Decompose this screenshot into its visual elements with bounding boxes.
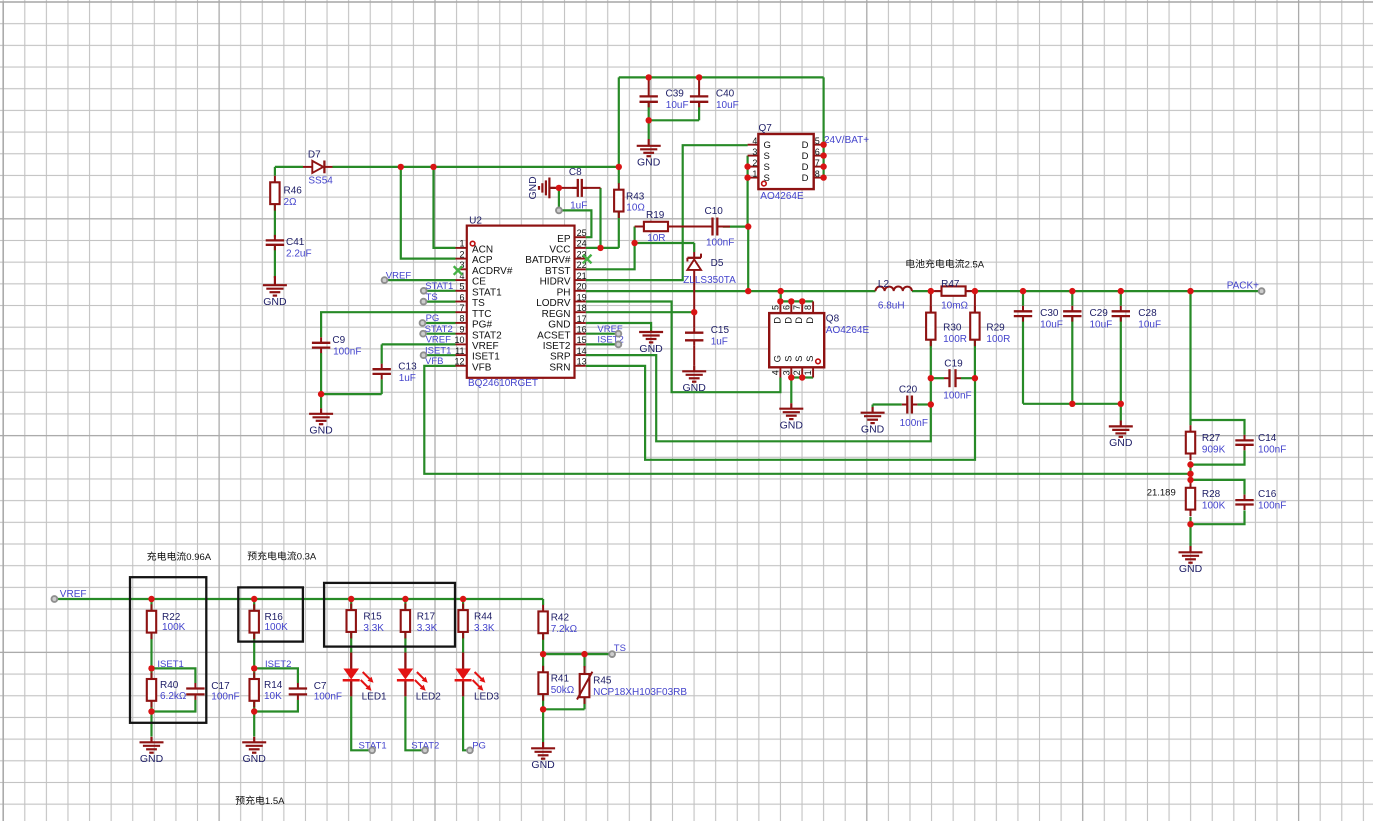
svg-text:14: 14 xyxy=(577,346,587,356)
svg-text:10uF: 10uF xyxy=(1040,320,1063,331)
svg-text:LED1: LED1 xyxy=(362,692,387,703)
wire VCC node: R43 bottom to U2 pin 24 and C8 xyxy=(586,167,619,248)
wire ACN branch to U2 pin 1 xyxy=(434,167,456,248)
resistor R44 xyxy=(458,604,467,639)
svg-text:0.96A: 0.96A xyxy=(186,552,211,563)
wire REGN: U2 pin 18 to D5 anode and C15 xyxy=(586,311,694,313)
svg-text:D: D xyxy=(772,317,783,324)
svg-text:10uF: 10uF xyxy=(1138,320,1161,331)
svg-text:D7: D7 xyxy=(308,150,321,161)
svg-text:PG#: PG# xyxy=(472,320,492,331)
wire TTC pin 7 to C9 xyxy=(321,312,455,337)
svg-text:R43: R43 xyxy=(626,191,645,202)
svg-text:5: 5 xyxy=(815,136,820,146)
capacitor C28 xyxy=(1112,306,1130,322)
svg-text:C29: C29 xyxy=(1090,308,1109,319)
svg-text:7: 7 xyxy=(815,158,820,168)
wire ACP branch to U2 pin 2 xyxy=(401,167,456,259)
wire C9/C13 bottoms to GND xyxy=(321,353,382,408)
resistor R46 xyxy=(270,176,279,211)
wire BTST net: U2 pin 22 to R19 and D5 cathode xyxy=(586,227,694,270)
svg-text:BATDRV#: BATDRV# xyxy=(525,255,571,266)
wire C15 bottom to GND xyxy=(693,346,695,366)
svg-text:BQ24610RGET: BQ24610RGET xyxy=(468,378,538,389)
svg-text:GND: GND xyxy=(263,296,287,308)
net label PACK+ xyxy=(1227,281,1259,292)
capacitor C8 xyxy=(549,179,600,197)
svg-text:LODRV: LODRV xyxy=(536,298,571,309)
svg-text:D: D xyxy=(802,173,809,184)
svg-text:GND: GND xyxy=(531,759,555,771)
resistor R15 xyxy=(347,604,356,639)
svg-text:1uF: 1uF xyxy=(399,373,416,384)
svg-text:24: 24 xyxy=(577,239,587,249)
svg-text:ACDRV#: ACDRV# xyxy=(472,266,513,277)
svg-text:AO4264E: AO4264E xyxy=(826,325,870,336)
svg-text:GND: GND xyxy=(309,425,333,437)
svg-text:LED3: LED3 xyxy=(474,692,499,703)
svg-text:R41: R41 xyxy=(551,674,570,685)
svg-text:SS54: SS54 xyxy=(308,176,333,187)
svg-text:12: 12 xyxy=(454,357,464,367)
svg-text:SRP: SRP xyxy=(550,352,571,363)
svg-text:ISET1: ISET1 xyxy=(472,352,500,363)
svg-text:1.5A: 1.5A xyxy=(265,796,285,807)
svg-text:REGN: REGN xyxy=(542,309,571,320)
wire output capacitor bottoms rail xyxy=(1023,316,1121,420)
pin names of U2 right xyxy=(525,234,571,374)
pin numbers of Q8 top xyxy=(770,305,813,310)
net label STAT2 at U2 pin 9 xyxy=(425,324,453,335)
net label TS at R42 bottom xyxy=(614,643,626,654)
svg-text:13: 13 xyxy=(577,357,587,367)
svg-text:GND: GND xyxy=(140,753,164,765)
wire VREF rail bottom section xyxy=(54,599,543,605)
svg-text:R29: R29 xyxy=(986,323,1005,334)
svg-text:2.2uF: 2.2uF xyxy=(286,249,312,260)
resistor R29 xyxy=(970,306,979,346)
svg-text:ZLLS350TA: ZLLS350TA xyxy=(683,275,736,286)
capacitor C17 xyxy=(186,683,204,700)
svg-text:VFB: VFB xyxy=(472,362,492,373)
svg-text:GND: GND xyxy=(243,753,267,765)
svg-text:GND: GND xyxy=(639,343,663,355)
ground below C9 xyxy=(309,408,333,436)
svg-text:3: 3 xyxy=(752,147,757,157)
net label TS at U2 pin 6 xyxy=(426,292,438,303)
net label VREF at rail start xyxy=(60,589,87,600)
svg-text:100nF: 100nF xyxy=(943,390,971,401)
ground below R14 xyxy=(242,737,266,765)
wire PG label to pin 8 xyxy=(423,322,456,324)
svg-text:100nF: 100nF xyxy=(333,347,361,358)
svg-text:R40: R40 xyxy=(160,680,179,691)
svg-text:ACP: ACP xyxy=(472,255,493,266)
ground at U2 pin 17 xyxy=(639,331,663,355)
ground below R40 xyxy=(140,737,164,765)
svg-text:LED2: LED2 xyxy=(416,692,441,703)
svg-text:0.3A: 0.3A xyxy=(297,552,317,563)
resistor R22 xyxy=(147,604,156,639)
svg-text:19: 19 xyxy=(577,292,587,302)
svg-text:10R: 10R xyxy=(647,233,665,244)
svg-text:9: 9 xyxy=(459,325,464,335)
svg-text:10mΩ: 10mΩ xyxy=(941,301,968,312)
svg-text:S: S xyxy=(805,356,816,362)
wire C20 links to GND and SRP column xyxy=(873,405,931,408)
ground below R28 xyxy=(1179,546,1203,575)
resistor R43 xyxy=(614,183,623,218)
net label STAT1 at U2 pin 5 xyxy=(425,281,453,292)
wire C19 links xyxy=(931,377,975,379)
wire R30 column between R47 left and C19/C20 xyxy=(930,291,932,404)
svg-text:6: 6 xyxy=(815,147,820,157)
ground below C15 xyxy=(682,366,706,394)
svg-text:C39: C39 xyxy=(666,89,685,100)
svg-text:C9: C9 xyxy=(332,335,345,346)
svg-text:24V/BAT+: 24V/BAT+ xyxy=(824,135,869,146)
svg-text:6: 6 xyxy=(459,292,464,302)
capacitor C39 xyxy=(640,91,658,107)
svg-text:909K: 909K xyxy=(1202,445,1226,456)
resistor R42 xyxy=(538,605,547,640)
svg-text:4: 4 xyxy=(752,136,757,146)
svg-text:GND: GND xyxy=(548,320,570,331)
svg-text:ISET1: ISET1 xyxy=(425,345,451,356)
net label ISET1 node xyxy=(157,659,183,670)
svg-text:C13: C13 xyxy=(398,362,417,373)
svg-text:3.3K: 3.3K xyxy=(363,623,384,634)
pin names of Q7 xyxy=(764,140,809,184)
wire Q8 source pins to GND xyxy=(791,378,813,404)
net label PG at U2 pin 8 xyxy=(426,313,440,324)
svg-text:100nF: 100nF xyxy=(1258,501,1286,512)
ground at C20 left xyxy=(861,407,885,436)
svg-text:ACSET: ACSET xyxy=(537,330,570,341)
net label STAT1 at LED1 xyxy=(359,741,387,752)
wire R22 column with ISET1 node xyxy=(152,599,196,737)
capacitor C20 xyxy=(902,396,918,414)
capacitor C30 xyxy=(1014,306,1032,322)
svg-text:GND: GND xyxy=(1109,437,1133,449)
wire R15-LED1 column to STAT1 xyxy=(351,599,372,750)
svg-text:VREF: VREF xyxy=(472,341,499,352)
ground below C41 xyxy=(263,276,287,308)
ground at C8 left xyxy=(528,176,559,199)
svg-text:16: 16 xyxy=(577,325,587,335)
wire output cap top leads xyxy=(1023,291,1121,306)
svg-text:11: 11 xyxy=(455,346,464,356)
svg-text:10: 10 xyxy=(454,335,464,345)
capacitor C9 xyxy=(312,337,330,353)
svg-text:D: D xyxy=(802,151,809,162)
svg-text:2: 2 xyxy=(459,249,464,259)
wire C8 left to U2 EP pin 25 xyxy=(559,188,592,237)
svg-text:S: S xyxy=(764,173,770,184)
svg-text:6: 6 xyxy=(781,305,791,310)
svg-text:TS: TS xyxy=(614,643,626,654)
svg-text:VREF: VREF xyxy=(60,589,87,600)
svg-text:6.2kΩ: 6.2kΩ xyxy=(160,691,187,702)
resistor R40 xyxy=(147,673,156,708)
capacitor C29 xyxy=(1063,306,1081,322)
svg-text:C30: C30 xyxy=(1040,308,1059,319)
resistor R47 xyxy=(931,286,975,295)
pin numbers of Q8 bottom xyxy=(770,370,813,375)
resistor R17 xyxy=(401,604,410,639)
svg-text:1uF: 1uF xyxy=(570,201,587,212)
svg-text:R42: R42 xyxy=(551,613,570,624)
annotation box around R15/R17 xyxy=(324,583,455,647)
svg-text:100nF: 100nF xyxy=(314,691,342,702)
net label ISET2 node xyxy=(265,659,291,670)
no-connect mark at U2 pin 3 xyxy=(454,266,463,275)
svg-text:100K: 100K xyxy=(162,622,186,633)
wire TS label to pin 6 xyxy=(424,301,456,303)
svg-text:7: 7 xyxy=(459,303,464,313)
svg-text:1: 1 xyxy=(459,239,464,249)
wire PH output rail xyxy=(586,290,1262,292)
svg-text:STAT1: STAT1 xyxy=(425,281,453,292)
svg-text:ISET1: ISET1 xyxy=(157,659,183,670)
text charge current 0.96A xyxy=(147,552,156,561)
svg-text:VCC: VCC xyxy=(549,245,570,256)
transistor Q7 xyxy=(748,134,824,189)
svg-text:GND: GND xyxy=(861,424,885,436)
pin numbers of Q7 right xyxy=(815,136,820,179)
svg-text:R30: R30 xyxy=(943,323,962,334)
capacitor C40 xyxy=(690,91,708,107)
svg-text:NCP18XH103F03RB: NCP18XH103F03RB xyxy=(593,687,687,698)
svg-text:R45: R45 xyxy=(593,676,612,687)
svg-text:PG: PG xyxy=(426,313,440,324)
capacitor C19 xyxy=(944,369,961,387)
svg-text:20: 20 xyxy=(577,282,587,292)
svg-text:4: 4 xyxy=(770,370,780,375)
svg-text:VREF: VREF xyxy=(426,335,452,346)
wire ISET2 stub at U2 pin 15 xyxy=(586,343,619,345)
svg-text:25: 25 xyxy=(577,228,587,238)
svg-text:S: S xyxy=(764,151,770,162)
svg-text:7: 7 xyxy=(792,305,802,310)
svg-text:Q8: Q8 xyxy=(826,314,840,325)
svg-text:R28: R28 xyxy=(1202,489,1221,500)
svg-text:TTC: TTC xyxy=(472,309,491,320)
pin names of Q8 xyxy=(772,317,816,363)
svg-text:GND: GND xyxy=(637,157,661,169)
svg-text:1: 1 xyxy=(752,169,757,179)
LED LED2 xyxy=(397,653,428,697)
wire D5 anode to C15 xyxy=(693,270,695,327)
svg-text:R19: R19 xyxy=(646,210,665,221)
svg-text:EP: EP xyxy=(557,234,571,245)
svg-text:S: S xyxy=(794,356,805,362)
wire STAT2 label to pin 9 xyxy=(423,333,455,335)
svg-text:10K: 10K xyxy=(264,691,282,702)
svg-text:D: D xyxy=(794,317,805,324)
wire R17-LED2 column to STAT2 xyxy=(405,599,425,750)
svg-text:C20: C20 xyxy=(899,384,918,395)
wire R29 bottom to C19 right xyxy=(974,291,976,378)
wire PACK+ divider column R27/R28 xyxy=(1191,291,1245,546)
svg-text:3: 3 xyxy=(781,370,791,375)
inductor L2 xyxy=(876,287,912,292)
svg-text:21.189: 21.189 xyxy=(1147,487,1176,498)
svg-text:C28: C28 xyxy=(1138,308,1157,319)
wire AC input rail from D7 to C39/C40 node xyxy=(275,77,824,166)
svg-text:100K: 100K xyxy=(1202,501,1226,512)
svg-text:10uF: 10uF xyxy=(666,100,689,111)
resistor R16 xyxy=(250,604,259,639)
svg-text:R15: R15 xyxy=(363,612,382,623)
svg-text:1uF: 1uF xyxy=(711,337,728,348)
svg-text:VREF: VREF xyxy=(386,270,412,281)
svg-text:R44: R44 xyxy=(474,612,493,623)
wire 24V/BAT+ rail at Q7 drains xyxy=(822,77,824,177)
wire Q8 drain connections to PH xyxy=(780,291,813,301)
svg-text:15: 15 xyxy=(577,335,587,345)
LED LED3 xyxy=(455,653,486,697)
svg-text:10uF: 10uF xyxy=(1090,320,1113,331)
net label PG at LED3 xyxy=(472,741,486,752)
svg-text:GND: GND xyxy=(528,176,539,199)
capacitor C7 xyxy=(289,683,307,700)
svg-text:2: 2 xyxy=(752,158,757,168)
svg-text:R47: R47 xyxy=(941,279,960,290)
svg-text:Q7: Q7 xyxy=(759,123,773,134)
svg-text:VFB: VFB xyxy=(425,356,443,367)
wire SRP: U2 pin 14 to R30/C20 column xyxy=(586,355,931,441)
svg-text:GND: GND xyxy=(683,382,707,394)
net label VREF at U2 pin 4 xyxy=(386,270,412,281)
IC U2 BQ24610RGET body xyxy=(456,226,586,378)
LED LED1 xyxy=(343,653,374,697)
text precharge 1.5A xyxy=(236,796,245,805)
svg-text:8: 8 xyxy=(459,314,464,324)
wire CE pin 4 to VREF label xyxy=(385,279,456,281)
svg-text:CE: CE xyxy=(472,277,486,288)
annotation box around R16 xyxy=(238,587,303,641)
wire VREF pin 10 to C13 xyxy=(382,344,456,363)
wire boot node: C10 right to Q7 sources and PH xyxy=(723,156,748,292)
svg-text:R14: R14 xyxy=(264,680,283,691)
svg-text:5: 5 xyxy=(770,305,780,310)
svg-text:2.5A: 2.5A xyxy=(965,259,985,270)
transistor Q8 xyxy=(769,301,824,377)
svg-text:C40: C40 xyxy=(716,89,735,100)
svg-text:C8: C8 xyxy=(569,167,582,178)
wire STAT1 label to pin 5 xyxy=(424,290,456,292)
svg-text:100nF: 100nF xyxy=(211,691,239,702)
svg-text:C15: C15 xyxy=(711,325,730,336)
svg-text:HIDRV: HIDRV xyxy=(540,277,571,288)
svg-text:U2: U2 xyxy=(469,216,482,227)
resistor R27 xyxy=(1186,425,1195,460)
net label ISET2 at U2 pin 15 xyxy=(597,335,623,346)
svg-text:SRN: SRN xyxy=(549,362,570,373)
ground below Q8 sources xyxy=(779,403,803,431)
svg-text:D: D xyxy=(783,317,794,324)
svg-text:10uF: 10uF xyxy=(716,100,739,111)
svg-text:D5: D5 xyxy=(711,258,724,269)
svg-text:6.8uH: 6.8uH xyxy=(878,301,905,312)
svg-text:ISET2: ISET2 xyxy=(543,341,571,352)
wire R44-LED3 column to PG xyxy=(463,599,470,750)
capacitor C10 xyxy=(668,218,730,236)
svg-text:17: 17 xyxy=(577,314,587,324)
no-connect mark at U2 pin 23 xyxy=(583,255,592,264)
svg-text:7.2kΩ: 7.2kΩ xyxy=(551,624,578,635)
wire R46 to C41 branch xyxy=(274,167,276,278)
wire U2 GND pin 17 to ground xyxy=(586,323,651,331)
wire ACSET: U2 pin 16 to VREF label xyxy=(586,333,619,335)
net port dots gray xyxy=(52,208,1265,754)
svg-text:C14: C14 xyxy=(1258,433,1277,444)
capacitor C15 xyxy=(685,327,703,346)
svg-text:2: 2 xyxy=(792,370,802,375)
svg-text:50kΩ: 50kΩ xyxy=(551,685,575,696)
svg-text:100K: 100K xyxy=(265,622,289,633)
resistor R28 xyxy=(1186,481,1195,516)
svg-text:TS: TS xyxy=(426,292,438,303)
svg-text:ISET2: ISET2 xyxy=(265,659,291,670)
net label VFB at U2 pin 12 xyxy=(425,356,443,367)
svg-text:5: 5 xyxy=(459,282,464,292)
svg-text:3.3K: 3.3K xyxy=(474,623,495,634)
svg-text:C10: C10 xyxy=(705,206,724,217)
svg-text:D: D xyxy=(802,162,809,173)
diode D5 xyxy=(687,252,701,270)
svg-text:10Ω: 10Ω xyxy=(626,203,645,214)
svg-text:S: S xyxy=(783,356,794,362)
pin names of U2 left xyxy=(472,245,513,374)
svg-text:2Ω: 2Ω xyxy=(284,197,298,208)
svg-text:G: G xyxy=(764,140,771,151)
svg-text:BTST: BTST xyxy=(545,266,571,277)
net label VREF at U2 pin 16 xyxy=(597,324,623,335)
svg-text:D: D xyxy=(802,140,809,151)
ground below C28 xyxy=(1109,421,1133,450)
svg-text:21: 21 xyxy=(577,271,587,281)
svg-text:3.3K: 3.3K xyxy=(417,623,438,634)
wire ISET1 label to pin 11 xyxy=(424,354,456,356)
svg-text:18: 18 xyxy=(577,303,587,313)
ground below R41 xyxy=(531,742,555,771)
wire SRN: U2 pin 13 to R29/C19 column xyxy=(586,366,975,460)
pin numbers of U2 left xyxy=(454,239,464,367)
svg-text:1: 1 xyxy=(803,370,813,375)
svg-text:STAT2: STAT2 xyxy=(472,330,502,341)
capacitor C41 xyxy=(266,235,284,250)
net label ISET1 at U2 pin 11 xyxy=(425,345,451,356)
capacitor C16 xyxy=(1235,495,1253,510)
svg-text:C19: C19 xyxy=(944,359,963,370)
pin numbers of U2 right xyxy=(577,228,587,367)
wire LODRV: U2 pin 19 to Q8 gate xyxy=(586,302,781,393)
svg-text:AO4264E: AO4264E xyxy=(760,191,804,202)
svg-text:D: D xyxy=(805,317,816,324)
svg-text:100nF: 100nF xyxy=(706,237,734,248)
svg-text:C16: C16 xyxy=(1258,489,1277,500)
capacitor C14 xyxy=(1235,435,1253,450)
annotation box around R22/R40 xyxy=(130,577,206,723)
wire C39/C40 bottom to GND xyxy=(649,77,699,139)
wire R16 column with ISET2 node xyxy=(254,599,298,737)
svg-text:PG: PG xyxy=(472,741,486,752)
resistor R14 xyxy=(250,673,259,708)
svg-text:L2: L2 xyxy=(878,279,890,290)
pin numbers of Q7 left xyxy=(752,136,757,179)
